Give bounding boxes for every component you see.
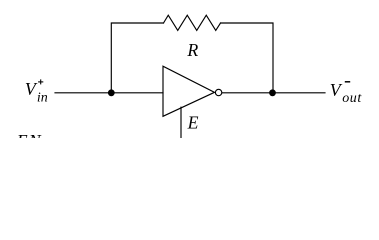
svg-text:in: in <box>37 90 48 105</box>
svg-text:EN: EN <box>16 131 42 138</box>
svg-text:R: R <box>186 40 198 60</box>
svg-text:out: out <box>342 91 362 106</box>
svg-text:E: E <box>187 112 199 132</box>
